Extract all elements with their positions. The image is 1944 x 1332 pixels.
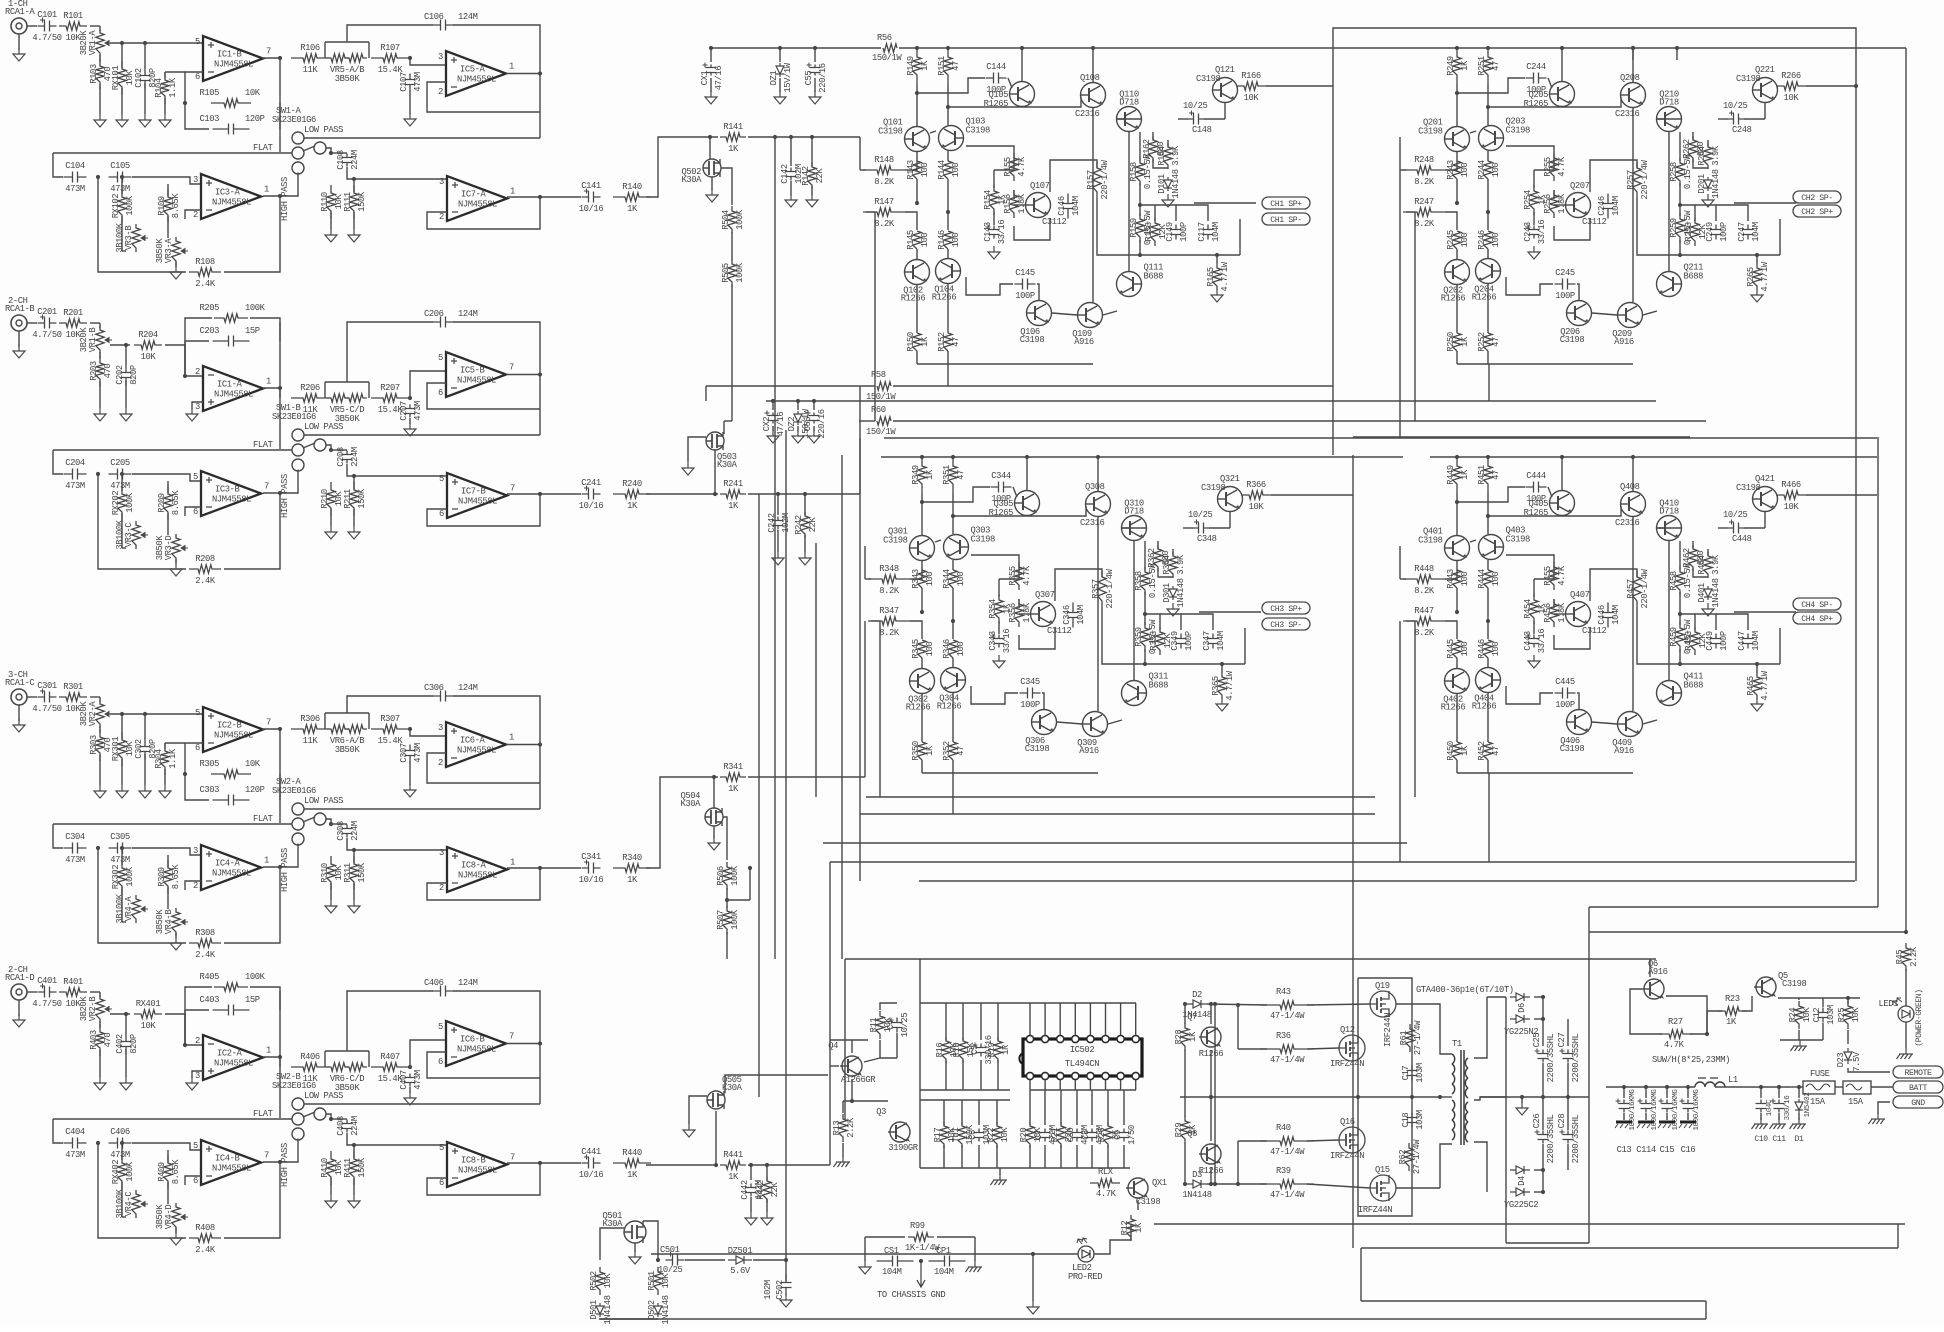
wire [1210, 1050, 1212, 1097]
svg-text:3.9K: 3.9K [1711, 145, 1721, 166]
wire [1533, 579, 1535, 597]
svg-text:R208: R208 [195, 554, 215, 564]
svg-text:100: 100 [1460, 572, 1470, 587]
wire [864, 546, 866, 579]
junction [96, 175, 100, 179]
wire [962, 1060, 964, 1090]
junction [183, 772, 187, 776]
svg-text:RCA1-B: RCA1-B [5, 304, 34, 314]
svg-text:FUSE: FUSE [1810, 1069, 1830, 1079]
ground [325, 1195, 337, 1208]
wire [1488, 364, 1490, 401]
junction [1236, 1003, 1240, 1007]
wire [748, 776, 865, 778]
svg-text:3B100K: 3B100K [115, 519, 125, 549]
resistor R357 [1098, 571, 1106, 607]
wire [185, 340, 209, 342]
svg-text:R406: R406 [300, 1052, 320, 1062]
capacitor C303 [213, 795, 250, 806]
svg-text:R1266: R1266 [1472, 293, 1497, 303]
wire [1244, 628, 1246, 664]
svg-text:1N4148: 1N4148 [1711, 578, 1721, 607]
svg-text:NJM4558L: NJM4558L [458, 871, 497, 881]
wire [1107, 1090, 1109, 1125]
wire [121, 177, 123, 194]
svg-text:C502: C502 [775, 1280, 785, 1300]
resistor R507 [723, 906, 731, 934]
wire [1153, 159, 1168, 168]
svg-text:IC502: IC502 [1070, 1045, 1095, 1055]
wire MOSFET frame [1358, 978, 1412, 1216]
svg-text:C307: C307 [399, 743, 409, 763]
svg-text:4.7K: 4.7K [1557, 156, 1567, 177]
resistor R502 [596, 1267, 604, 1295]
junction [1031, 1252, 1035, 1256]
capacitor C208 [342, 451, 353, 464]
svg-text:1000/16KMG: 1000/16KMG [1629, 1089, 1637, 1131]
transistor Q501 [624, 1221, 646, 1243]
wire [947, 284, 949, 333]
wire [121, 1143, 123, 1160]
resistor R504 [728, 206, 736, 234]
svg-text:C106: C106 [424, 12, 444, 22]
switch SW2-A low-pass contact [292, 803, 304, 815]
svg-text:D501: D501 [589, 1300, 599, 1320]
wire [192, 1071, 203, 1078]
svg-text:C143: C143 [983, 222, 993, 242]
switch SW2-A arm contact [314, 813, 326, 825]
ground [94, 408, 106, 421]
svg-text:2: 2 [438, 758, 443, 768]
resistor R246 [1484, 231, 1492, 249]
resistor R407 [371, 1063, 409, 1071]
svg-text:C402: C402 [115, 1034, 125, 1054]
junction [1560, 46, 1564, 50]
junction [408, 1065, 412, 1069]
svg-text:1K: 1K [1460, 336, 1470, 347]
wire [560, 1162, 581, 1164]
pin stub [1135, 1080, 1137, 1090]
diode D4b [1510, 1188, 1530, 1196]
junction [1675, 46, 1679, 50]
junction [1854, 84, 1858, 88]
wire [864, 1058, 880, 1062]
svg-text:1K: 1K [1134, 1222, 1144, 1233]
wire [1487, 284, 1489, 333]
svg-text:R13: R13 [832, 1121, 842, 1136]
capacitor C108 [342, 154, 353, 167]
svg-text:RCA1-D: RCA1-D [5, 973, 34, 983]
svg-text:100: 100 [1491, 642, 1501, 657]
svg-text:C3198: C3198 [971, 535, 996, 545]
svg-text:2: 2 [438, 87, 443, 97]
wire [1019, 627, 1055, 649]
svg-text:33/16: 33/16 [1537, 629, 1547, 654]
junction [1213, 1182, 1217, 1186]
wire [1092, 48, 1094, 82]
svg-text:3B50K: 3B50K [155, 909, 165, 935]
svg-text:2: 2 [439, 212, 444, 222]
svg-text:R255: R255 [1543, 157, 1553, 177]
wire [920, 1099, 1010, 1101]
RCA connector RCA1-D ground [13, 1014, 25, 1027]
svg-text:D101: D101 [1157, 174, 1167, 194]
junction [1096, 455, 1100, 459]
wire [144, 754, 146, 785]
wire [540, 867, 560, 869]
svg-text:IC5-A: IC5-A [460, 65, 486, 75]
wire [125, 1014, 127, 1034]
potentiometer VR6-C/D element1 [327, 1063, 349, 1071]
capacitor C101 [38, 21, 57, 32]
wire [1139, 132, 1141, 161]
wire [1060, 1090, 1062, 1125]
connector BATT [1893, 1081, 1943, 1093]
ground [809, 91, 821, 104]
wire [1680, 254, 1780, 256]
svg-text:R264: R264 [1697, 146, 1707, 166]
wire [125, 1049, 127, 1077]
wire [279, 991, 281, 1118]
wire [1779, 219, 1781, 255]
svg-text:R36: R36 [1276, 1031, 1291, 1041]
wire mid rail A [766, 400, 1656, 402]
transistor Q107 [1026, 193, 1051, 218]
capacitor C12 [1818, 1008, 1829, 1023]
svg-text:100K: 100K [125, 492, 135, 513]
wire [766, 1165, 768, 1180]
wire [121, 88, 123, 114]
wire [304, 808, 540, 810]
chassis ground [1790, 1118, 1807, 1129]
wire [347, 25, 433, 34]
wire [1666, 1087, 1668, 1098]
wire [279, 388, 281, 398]
wire [1778, 997, 1823, 999]
svg-text:R162: R162 [1142, 139, 1152, 159]
pin stub [1089, 1003, 1091, 1035]
svg-text:R246: R246 [1477, 230, 1487, 250]
potentiometer VR6-A/B frame [325, 712, 369, 714]
svg-text:CH3 SP-: CH3 SP- [1270, 621, 1302, 630]
wire [905, 212, 917, 230]
wire [175, 933, 177, 938]
IC502 pin 8 [1132, 1072, 1139, 1079]
wire [185, 210, 201, 219]
svg-text:R152: R152 [937, 332, 947, 352]
wire [1798, 1087, 1800, 1098]
svg-text:RCA1-C: RCA1-C [5, 678, 34, 688]
wire [560, 196, 581, 198]
ground [808, 430, 820, 443]
svg-text:R20: R20 [1019, 1128, 1029, 1143]
wire [427, 494, 540, 526]
ground [348, 900, 360, 913]
svg-text:10K: 10K [1244, 93, 1260, 103]
switch SW1-A common contact [292, 147, 304, 159]
junction [143, 712, 147, 716]
svg-text:47: 47 [1491, 746, 1501, 756]
resistor R304 [161, 743, 169, 775]
svg-text:R248: R248 [1414, 155, 1434, 165]
wire [262, 728, 280, 730]
resistor R23 [1717, 1007, 1747, 1015]
junction [712, 775, 716, 779]
svg-text:C403: C403 [199, 995, 219, 1005]
svg-text:100K: 100K [735, 262, 745, 283]
svg-text:R250: R250 [1446, 332, 1456, 352]
svg-text:C3198: C3198 [1201, 483, 1226, 493]
resistor R442 [763, 1177, 771, 1203]
svg-text:R164: R164 [1157, 146, 1167, 166]
ground [706, 189, 718, 202]
junction [813, 46, 817, 50]
capacitor C448 [1728, 523, 1745, 534]
wire [1693, 568, 1708, 577]
ground [1751, 289, 1763, 302]
capacitor C404 [64, 1138, 87, 1149]
svg-text:8.65K: 8.65K [171, 1159, 181, 1185]
wire [945, 1003, 947, 1040]
wire [347, 991, 433, 1043]
svg-text:100: 100 [956, 642, 966, 657]
svg-text:Q19: Q19 [1375, 981, 1390, 991]
svg-text:IC3-A: IC3-A [215, 188, 241, 198]
capacitor C244 [1526, 73, 1547, 84]
capacitor C245 [1555, 279, 1576, 290]
wire [132, 1143, 201, 1150]
wire [1534, 1191, 1543, 1193]
switch SW1-A arm [303, 146, 315, 151]
transistor Q210 [1657, 107, 1682, 132]
svg-text:D718: D718 [1659, 98, 1679, 108]
svg-text:1K: 1K [1188, 1124, 1198, 1135]
svg-text:R307: R307 [380, 714, 400, 724]
wire [167, 184, 169, 196]
resistor R255 [1550, 153, 1558, 181]
resistor R453 [1691, 627, 1699, 655]
svg-text:3B20K: 3B20K [79, 30, 89, 56]
resistor R401 [59, 988, 87, 996]
svg-text:R309: R309 [157, 867, 167, 887]
wire [865, 578, 871, 580]
resistor R105 [211, 99, 251, 107]
junction [124, 1012, 128, 1016]
wire [279, 103, 281, 129]
svg-text:470: 470 [103, 738, 113, 753]
svg-text:TO CHASSIS GND: TO CHASSIS GND [877, 1290, 945, 1300]
wire [905, 152, 917, 170]
wire [1679, 592, 1681, 625]
wire [263, 1056, 280, 1058]
zener diode D23 [1844, 1048, 1852, 1064]
svg-text:RX202: RX202 [111, 491, 121, 516]
svg-text:C102: C102 [134, 68, 144, 88]
wire [1577, 284, 1579, 300]
wire [427, 753, 540, 783]
svg-text:100: 100 [951, 163, 961, 178]
svg-text:1N4148: 1N4148 [603, 1295, 613, 1324]
svg-text:Q3: Q3 [876, 1107, 886, 1117]
transistor Q211 [1657, 272, 1682, 297]
wire [1029, 1090, 1031, 1125]
transistor Q321 [1218, 487, 1243, 512]
wire riser CH4 amp in [1399, 621, 1401, 862]
wire [997, 1060, 999, 1090]
wire [993, 212, 995, 225]
wire [779, 78, 781, 92]
svg-text:IC2-B: IC2-B [217, 721, 242, 731]
wire [930, 131, 936, 133]
svg-text:7: 7 [510, 1153, 515, 1163]
svg-text:22K: 22K [808, 517, 818, 533]
wire [560, 867, 581, 869]
svg-text:1N4148: 1N4148 [661, 1295, 671, 1324]
wire [110, 713, 203, 715]
wire [98, 474, 186, 569]
wire [99, 381, 101, 408]
wire [1534, 1018, 1543, 1020]
svg-text:A916: A916 [1614, 337, 1634, 347]
transistor Q111 [1117, 272, 1142, 297]
wire [1456, 351, 1458, 364]
resistor R201 [59, 319, 87, 327]
svg-text:R457: R457 [1626, 579, 1636, 599]
svg-text:2: 2 [439, 883, 444, 893]
svg-text:2: 2 [195, 1036, 200, 1046]
RCA connector RCA1-C [11, 689, 27, 705]
ground [772, 552, 784, 565]
svg-text:2.4K: 2.4K [195, 576, 216, 586]
wire [1716, 205, 1748, 221]
capacitor C207 [405, 405, 416, 418]
wire [952, 693, 954, 742]
svg-text:CH2 SP-: CH2 SP- [1801, 194, 1833, 203]
wire [192, 402, 203, 409]
junction [1486, 210, 1490, 214]
svg-text:100K: 100K [730, 909, 740, 930]
capacitor C10 [1756, 1100, 1767, 1113]
svg-text:47: 47 [951, 61, 961, 71]
wire [99, 755, 101, 785]
wire [353, 1145, 355, 1158]
junction [1560, 455, 1564, 459]
svg-text:C7: C7 [1034, 1130, 1044, 1140]
svg-text:DZ2: DZ2 [787, 417, 797, 432]
wire [1756, 664, 1758, 673]
svg-text:SK23E01G6: SK23E01G6 [272, 412, 316, 422]
wire [1488, 97, 1621, 107]
wire [1097, 457, 1099, 491]
wire feedback vertical [1414, 621, 1416, 797]
resistor R106 [291, 54, 329, 62]
wire [766, 1199, 768, 1212]
wire [560, 493, 581, 495]
svg-text:1K: 1K [1460, 745, 1470, 756]
wire [122, 547, 126, 549]
svg-text:C349: C349 [1170, 631, 1180, 651]
pin stub [1044, 1003, 1046, 1035]
wire [952, 773, 954, 814]
wire [1181, 614, 1213, 630]
transistor Q16 [1339, 1127, 1365, 1153]
wire [353, 476, 355, 489]
resistor RX301 [118, 732, 126, 766]
svg-text:4.7K: 4.7K [1017, 156, 1027, 177]
wire [279, 322, 281, 449]
capacitor C145 [1015, 279, 1036, 290]
op-amp IC1-A [203, 366, 263, 411]
svg-text:R11: R11 [869, 1018, 879, 1033]
svg-text:C13: C13 [1617, 1145, 1632, 1155]
wire [688, 437, 706, 462]
junction [920, 610, 924, 614]
svg-text:104M: 104M [1751, 631, 1761, 651]
IC U502 TL494CN [1023, 1039, 1142, 1076]
wire [797, 401, 799, 410]
resistor R56 [883, 44, 897, 52]
junction [183, 374, 187, 378]
svg-text:C305: C305 [110, 832, 130, 842]
wire [1553, 599, 1555, 608]
svg-text:D201: D201 [1697, 174, 1707, 194]
svg-text:R446: R446 [1477, 639, 1487, 659]
wire [144, 83, 146, 114]
wire [1780, 1039, 1823, 1041]
wire [1152, 132, 1154, 140]
resistor R206 [291, 394, 329, 402]
svg-text:R356: R356 [1008, 603, 1018, 623]
capacitor C249 [1711, 225, 1722, 240]
wire [185, 103, 209, 129]
wire [1897, 1224, 1899, 1248]
svg-text:7: 7 [509, 1032, 514, 1042]
svg-text:R410: R410 [320, 1158, 330, 1178]
transistor Q505 [707, 1091, 725, 1109]
svg-text:10K: 10K [1000, 1127, 1010, 1143]
svg-text:10K: 10K [603, 1273, 613, 1289]
op-amp IC8-B [447, 1142, 507, 1187]
resistor R36 [1260, 1045, 1314, 1053]
svg-text:C17: C17 [1401, 1066, 1411, 1081]
junction [951, 619, 955, 623]
wire [1487, 760, 1489, 773]
svg-text:C105: C105 [110, 161, 130, 171]
svg-text:R107: R107 [380, 43, 400, 53]
wire CH3 rail [881, 456, 1403, 458]
resistor R409 [164, 1155, 172, 1189]
svg-text:C343: C343 [988, 631, 998, 651]
svg-text:2200/35SHL: 2200/35SHL [1546, 1033, 1556, 1082]
op-amp IC6-A [446, 722, 506, 767]
wire [748, 136, 860, 138]
wire [1456, 760, 1458, 773]
wire [507, 1162, 540, 1164]
transistor Q101 [905, 127, 930, 152]
wire [880, 1057, 897, 1059]
wire [121, 1182, 123, 1217]
svg-text:R156: R156 [1003, 194, 1013, 214]
svg-text:473M: 473M [413, 743, 423, 763]
wire [1705, 1301, 1707, 1319]
svg-text:NJM4558L: NJM4558L [212, 1164, 251, 1174]
transistor Q109 [1078, 303, 1103, 328]
junction [1846, 996, 1850, 1000]
switch SW2-A common contact [292, 818, 304, 830]
wire [1554, 613, 1566, 615]
wire [347, 464, 447, 476]
capacitor C25 [1538, 1050, 1549, 1063]
